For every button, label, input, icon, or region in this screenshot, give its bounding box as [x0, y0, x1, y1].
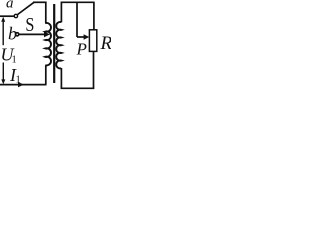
wire: b tap with arrow into primary coil	[20, 33, 45, 35]
wire: right branch down to resistor	[93, 2, 95, 30]
primary coil P1 (5 arcs bulging right)	[45, 23, 51, 65]
wire: primary coil bottom to bottom wire	[45, 65, 47, 84]
slider P: vertical from top wire	[76, 2, 78, 37]
wire: resistor bottom to bottom wire	[93, 51, 95, 88]
wire: primary vertical down to coil	[45, 2, 47, 23]
secondary coil (6 arcs bulging left)	[56, 22, 61, 69]
resistor R body	[89, 30, 96, 52]
svg-text:1: 1	[12, 54, 17, 65]
slider P: horizontal with arrow to resistor	[77, 36, 85, 38]
wire: secondary vertical top	[60, 2, 62, 22]
U1 voltage double arrow	[2, 19, 4, 46]
wire: secondary bottom horizontal	[61, 87, 95, 89]
switch S hinge circle	[14, 14, 17, 17]
circuit schematic: transformer with switch S, terminals a/b, U1, I1, slider P, resistor R	[0, 0, 111, 92]
wire: top-left from corner to switch hinge	[0, 15, 14, 17]
wire: bottom primary	[0, 84, 47, 86]
svg-text:1: 1	[16, 75, 21, 86]
svg-text:S: S	[25, 13, 34, 35]
svg-text:b: b	[8, 24, 17, 44]
I1 current arrow on bottom wire	[18, 82, 24, 87]
switch S blade	[18, 2, 34, 14]
terminal b circle	[16, 33, 19, 36]
wire: secondary vertical bottom	[60, 68, 62, 89]
wire: secondary top horizontal	[61, 1, 95, 3]
svg-text:R: R	[100, 33, 112, 54]
transformer core	[53, 4, 55, 83]
wire: top right of switch to transformer	[33, 1, 47, 3]
svg-text:a: a	[6, 0, 14, 11]
svg-text:P: P	[76, 40, 87, 59]
